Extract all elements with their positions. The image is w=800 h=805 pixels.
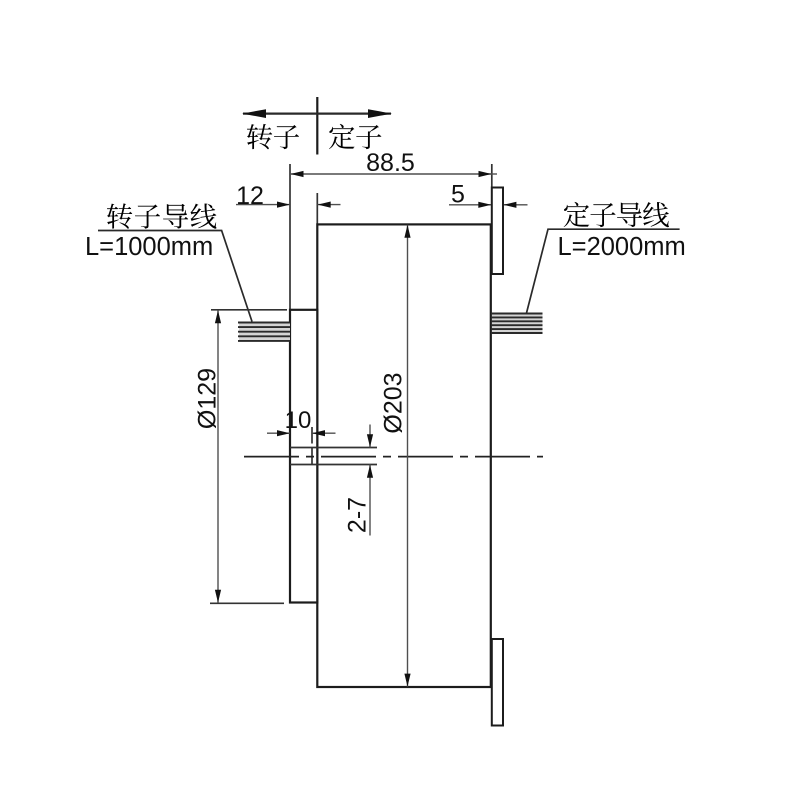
rotor body [290, 310, 317, 603]
svg-text:10: 10 [285, 407, 312, 434]
dimension 12 [236, 182, 341, 310]
dimension 10 [267, 407, 336, 444]
dimension 88.5 [290, 149, 497, 205]
center slot lower edge [290, 464, 377, 466]
label 定子 (stator) [329, 124, 381, 149]
stator body [317, 224, 491, 687]
svg-text:88.5: 88.5 [366, 149, 415, 177]
leader line stator leads [527, 229, 680, 313]
svg-text:L=1000mm: L=1000mm [85, 233, 213, 261]
rotor lead wires [238, 322, 290, 342]
svg-text:Ø203: Ø203 [380, 372, 408, 433]
rotor-stator direction arrow [242, 109, 392, 118]
label 转子导线 (rotor leads) [107, 203, 217, 228]
bottom mounting flange [492, 639, 503, 726]
dimension Ø203 [380, 225, 411, 687]
stator lead wires [491, 313, 543, 334]
top mounting flange [492, 188, 503, 275]
svg-text:L=2000mm: L=2000mm [558, 233, 686, 261]
dimension 5 [449, 181, 528, 209]
rotor/stator divider line [316, 97, 318, 155]
label 转子 (rotor) [247, 124, 299, 149]
svg-text:5: 5 [451, 181, 465, 209]
centerline [244, 456, 543, 458]
leader line rotor leads [98, 231, 252, 322]
svg-text:12: 12 [236, 182, 264, 210]
svg-text:Ø129: Ø129 [194, 368, 222, 429]
svg-text:2-7: 2-7 [344, 497, 372, 533]
label 定子导线 (stator leads) [564, 202, 669, 227]
dimension 2-7 [344, 425, 374, 536]
dimension Ø129 [194, 310, 288, 604]
center slot upper edge [290, 447, 377, 449]
center slot bottom [311, 448, 313, 465]
